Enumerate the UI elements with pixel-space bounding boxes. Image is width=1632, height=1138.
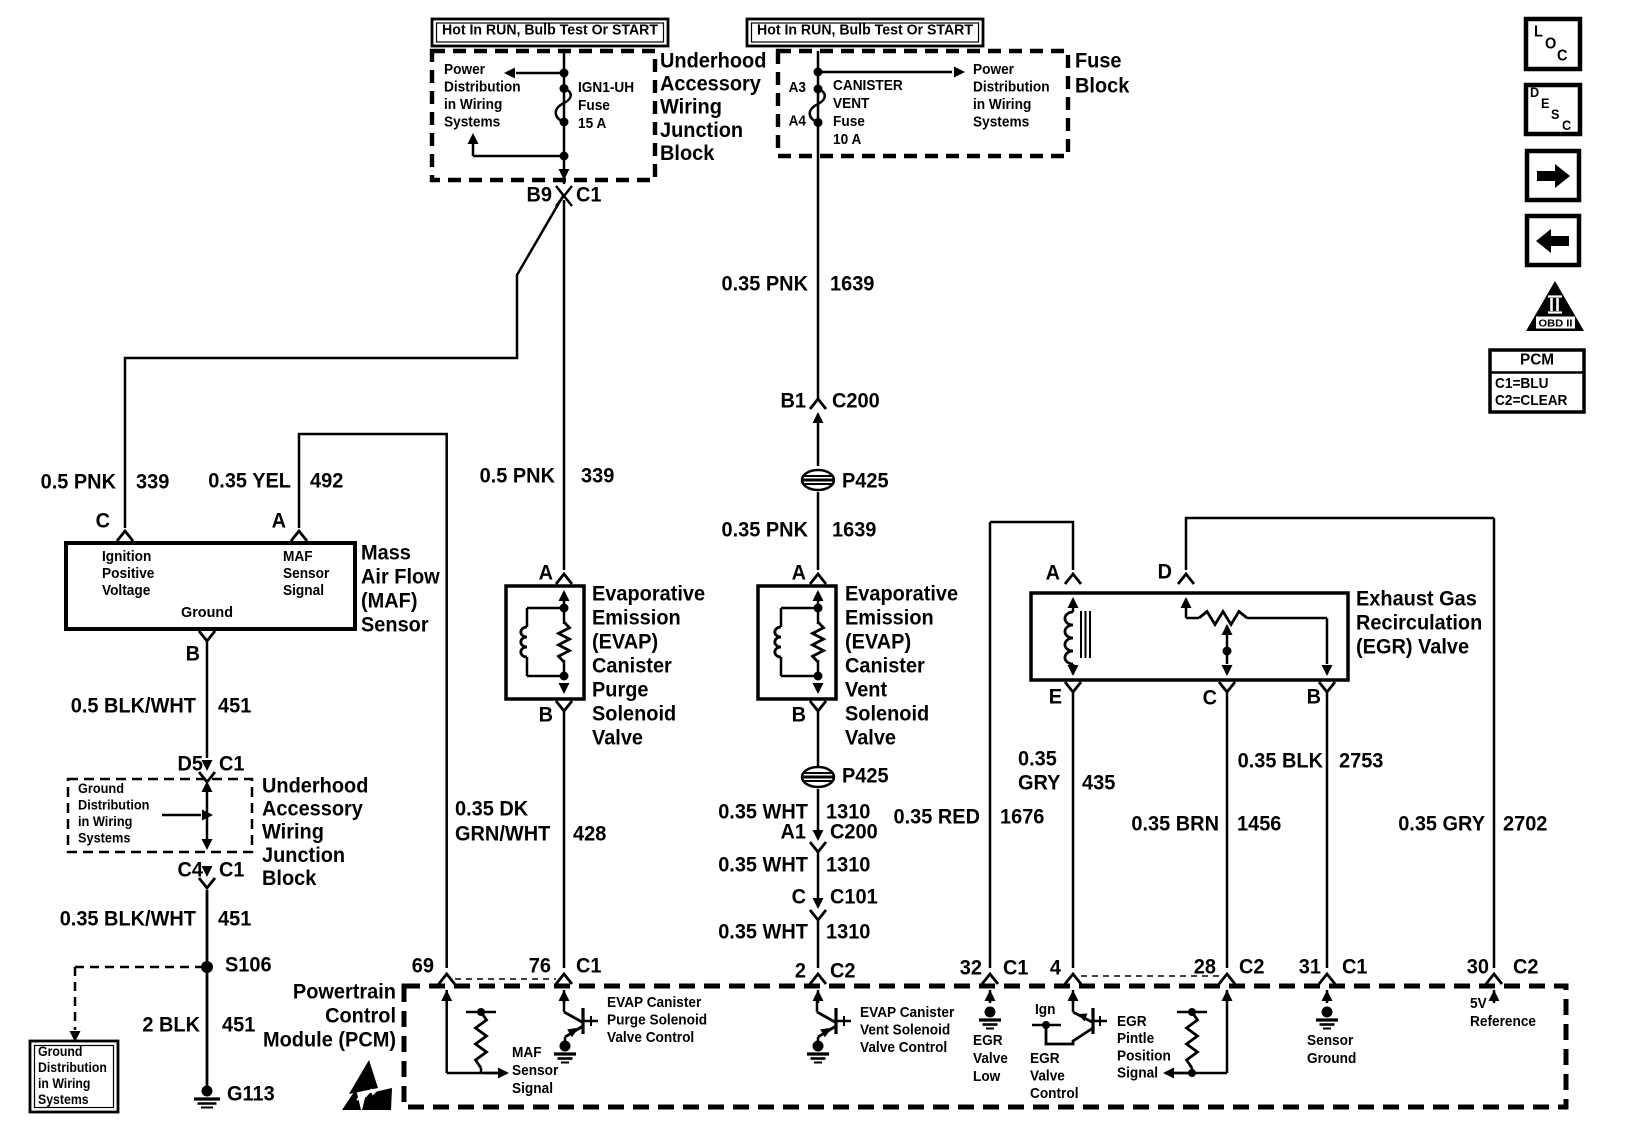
PCM internal: EGR valve control driver transistor with Ign, pin 4 xyxy=(1072,1000,1075,1012)
connector B1 C200 xyxy=(810,399,826,409)
svg-text:0.5 PNK: 0.5 PNK xyxy=(480,464,555,487)
svg-text:428: 428 xyxy=(573,822,607,845)
svg-text:A: A xyxy=(1046,561,1060,584)
arrow PCM pin 2 entry xyxy=(813,990,824,1001)
svg-text:in Wiring: in Wiring xyxy=(38,1076,90,1091)
pull-up resistor at pin 69 xyxy=(466,1011,496,1014)
svg-text:Systems: Systems xyxy=(38,1092,89,1107)
svg-text:4: 4 xyxy=(1050,956,1061,979)
connector PCM pin 31 xyxy=(1319,974,1335,984)
connector EGR pin C xyxy=(1219,682,1235,692)
svg-text:Junction: Junction xyxy=(262,844,345,867)
connector EGR pin B xyxy=(1319,682,1335,692)
fuse CANISTER VENT 10A symbol xyxy=(814,85,823,94)
svg-text:Ground: Ground xyxy=(38,1044,82,1059)
svg-text:in Wiring: in Wiring xyxy=(973,96,1031,113)
Ground Distribution dashed box (underhood junction block) xyxy=(68,779,252,852)
svg-text:Powertrain: Powertrain xyxy=(293,980,396,1003)
PCM internal: sensor ground, pin 31 xyxy=(1322,1007,1333,1018)
svg-text:Distribution: Distribution xyxy=(78,797,149,813)
svg-text:0.35 GRY: 0.35 GRY xyxy=(1398,812,1485,835)
wire WHT 1310 from vent solenoid to P425 xyxy=(817,712,820,766)
Mass Air Flow MAF sensor box xyxy=(66,543,355,629)
solenoid EVAP canister vent valve box xyxy=(758,586,836,699)
arrow PCM pin 30 entry xyxy=(1489,990,1500,1001)
svg-text:(EVAP): (EVAP) xyxy=(845,630,911,653)
svg-text:E: E xyxy=(1541,95,1550,111)
svg-text:Block: Block xyxy=(1075,74,1130,97)
wire WHT 1310 below P425 xyxy=(817,789,820,830)
svg-text:C: C xyxy=(792,885,806,908)
svg-text:GRY: GRY xyxy=(1018,771,1061,794)
svg-text:Underhood: Underhood xyxy=(660,49,766,72)
icon button DESC xyxy=(1526,85,1580,134)
svg-text:Emission: Emission xyxy=(845,606,934,629)
svg-text:Solenoid: Solenoid xyxy=(845,702,929,725)
connector PCM pin 32 xyxy=(982,974,998,984)
svg-text:0.35 RED: 0.35 RED xyxy=(894,805,981,828)
svg-text:EGR: EGR xyxy=(1030,1050,1060,1067)
svg-text:Ignition: Ignition xyxy=(102,548,151,565)
svg-text:Control: Control xyxy=(1030,1085,1079,1102)
svg-text:Valve: Valve xyxy=(592,726,643,749)
svg-text:30: 30 xyxy=(1467,955,1489,978)
svg-text:Emission: Emission xyxy=(592,606,681,629)
svg-text:Evaporative: Evaporative xyxy=(845,582,958,605)
wire 1456 BRN EGR pin C to PCM pin 28 xyxy=(1226,693,1229,968)
svg-text:EGR: EGR xyxy=(973,1032,1003,1049)
svg-text:1310: 1310 xyxy=(826,920,870,943)
svg-text:Signal: Signal xyxy=(512,1080,553,1097)
svg-text:Pintle: Pintle xyxy=(1117,1030,1154,1047)
svg-text:in Wiring: in Wiring xyxy=(78,813,132,829)
svg-text:2: 2 xyxy=(795,959,806,982)
wire 2702 GRY riser to EGR pin D xyxy=(1186,518,1494,570)
wire 339 PNK from B9 to purge solenoid pin A xyxy=(563,200,566,570)
svg-text:0.35: 0.35 xyxy=(1018,747,1057,770)
connector MAF pin A xyxy=(291,531,307,541)
svg-text:Fuse: Fuse xyxy=(578,97,610,114)
svg-text:P425: P425 xyxy=(842,764,889,787)
svg-text:B: B xyxy=(539,703,553,726)
svg-text:Vent: Vent xyxy=(845,678,887,701)
splice S106 xyxy=(201,961,213,973)
wire 428 DK GRN/WHT purge solenoid to PCM pin 76 xyxy=(563,712,566,968)
svg-text:Positive: Positive xyxy=(102,565,154,582)
svg-text:C200: C200 xyxy=(832,389,880,412)
header warning box left: Hot In RUN, Bulb Test Or START xyxy=(432,19,668,46)
svg-text:69: 69 xyxy=(412,954,434,977)
svg-text:Wiring: Wiring xyxy=(660,96,722,119)
arrow PCM pin 4 entry xyxy=(1068,990,1079,1001)
svg-text:0.35 PNK: 0.35 PNK xyxy=(722,272,809,295)
icon OBD II triangle xyxy=(1526,281,1584,331)
svg-text:Voltage: Voltage xyxy=(102,582,150,599)
connector PCM pin 76 xyxy=(556,974,572,984)
svg-text:0.35 PNK: 0.35 PNK xyxy=(722,518,809,541)
svg-text:1639: 1639 xyxy=(832,518,876,541)
icon button LOC xyxy=(1526,19,1580,69)
svg-text:Ground: Ground xyxy=(181,604,233,621)
svg-text:EVAP Canister: EVAP Canister xyxy=(860,1004,954,1021)
svg-text:Purge Solenoid: Purge Solenoid xyxy=(607,1011,707,1028)
connector PCM pin 4 xyxy=(1065,974,1081,984)
svg-text:C2: C2 xyxy=(1239,955,1265,978)
purge solenoid internal wire and arrows xyxy=(559,590,570,601)
svg-text:B: B xyxy=(1307,685,1321,708)
svg-text:Solenoid: Solenoid xyxy=(592,702,676,725)
connector PCM pin 2 xyxy=(810,974,826,984)
svg-text:E: E xyxy=(1049,685,1062,708)
svg-text:Module (PCM): Module (PCM) xyxy=(263,1028,396,1051)
svg-text:Recirculation: Recirculation xyxy=(1356,611,1482,634)
svg-text:339: 339 xyxy=(581,464,614,487)
svg-text:C1=BLU: C1=BLU xyxy=(1495,375,1549,392)
svg-text:A: A xyxy=(539,561,553,584)
node junction to ground branch xyxy=(560,152,569,161)
svg-text:L: L xyxy=(1534,24,1543,41)
connector EGR pin E xyxy=(1065,682,1081,692)
svg-text:0.35 BLK/WHT: 0.35 BLK/WHT xyxy=(60,907,196,930)
Powertrain Control Module PCM dashed box xyxy=(404,986,1566,1107)
connector PCM pin 28 xyxy=(1219,974,1235,984)
svg-text:492: 492 xyxy=(310,469,343,492)
svg-text:0.35 BLK: 0.35 BLK xyxy=(1238,749,1323,772)
svg-text:Sensor: Sensor xyxy=(361,613,429,636)
svg-text:Valve: Valve xyxy=(973,1050,1008,1067)
fuse IGN1-UH 15A symbol xyxy=(560,84,569,93)
svg-text:10 A: 10 A xyxy=(833,131,861,148)
purge solenoid resistor xyxy=(559,622,570,662)
svg-text:(EVAP): (EVAP) xyxy=(592,630,658,653)
svg-text:C: C xyxy=(1562,117,1571,133)
svg-text:Systems: Systems xyxy=(444,113,500,130)
svg-text:D: D xyxy=(1530,84,1539,100)
wire 2702 GRY down to PCM pin 30 xyxy=(1493,518,1496,968)
svg-text:Wiring: Wiring xyxy=(262,821,324,844)
svg-text:PCM: PCM xyxy=(1520,352,1554,369)
PCM connector color legend box xyxy=(1490,350,1584,412)
svg-text:Block: Block xyxy=(262,867,317,890)
wire 1639 PNK between P425 and EVAP vent solenoid xyxy=(817,492,820,570)
dashed connector line pins 4-28 xyxy=(1081,975,1220,977)
svg-text:Power: Power xyxy=(444,61,485,78)
solenoid EVAP canister purge valve box xyxy=(506,586,584,699)
svg-text:Junction: Junction xyxy=(660,119,743,142)
svg-text:Ign: Ign xyxy=(1035,1001,1056,1018)
svg-text:Valve Control: Valve Control xyxy=(860,1039,947,1056)
PCM internal: MAF sensor signal input, pin 69 xyxy=(445,1000,448,1073)
svg-text:C1: C1 xyxy=(576,183,602,206)
EGR potentiometer wiper xyxy=(1222,624,1233,635)
wire WHT 1310 second segment xyxy=(817,852,820,898)
arrow wire exits junction block down xyxy=(559,169,570,180)
EGR solenoid coil with core xyxy=(1068,597,1079,608)
arrow PCM pin 31 entry xyxy=(1322,990,1333,1001)
arrow into ground distribution box xyxy=(70,1031,81,1042)
svg-text:Reference: Reference xyxy=(1470,1013,1536,1030)
svg-text:Position: Position xyxy=(1117,1047,1171,1064)
connector A1 C200 xyxy=(813,830,824,841)
svg-text:C1: C1 xyxy=(1003,956,1029,979)
svg-text:C2: C2 xyxy=(830,959,856,982)
connector pin B purge solenoid xyxy=(556,701,572,711)
arrow to Power Distribution left xyxy=(504,68,515,79)
svg-text:451: 451 xyxy=(222,1013,256,1036)
header warning box right: Hot In RUN, Bulb Test Or START xyxy=(747,19,983,46)
ESD sensitivity triangle symbol xyxy=(349,1060,378,1094)
EGR pintle position potentiometer xyxy=(1181,597,1192,608)
svg-text:31: 31 xyxy=(1299,955,1322,978)
wire canister vent fuse feed vertical xyxy=(817,51,820,400)
arrow ground distribution to wire xyxy=(162,814,201,817)
svg-text:Sensor: Sensor xyxy=(1307,1032,1353,1049)
connector B9 C1 xyxy=(556,186,572,196)
svg-text:28: 28 xyxy=(1194,955,1217,978)
wire 435 GRY EGR pin E to PCM pin 4 xyxy=(1072,693,1075,968)
connector MAF pin B xyxy=(199,631,215,641)
Underhood Accessory Wiring Junction Block dashed box xyxy=(432,51,655,180)
svg-text:A1: A1 xyxy=(781,820,807,843)
arrow to Power Distribution right xyxy=(954,67,965,78)
PCM internal: EVAP canister vent solenoid driver transistor, pin 2 xyxy=(816,1000,819,1012)
svg-text:IGN1-UH: IGN1-UH xyxy=(578,79,634,96)
icon button back arrow xyxy=(1527,216,1579,265)
svg-text:B9: B9 xyxy=(527,183,553,206)
svg-text:0.35 WHT: 0.35 WHT xyxy=(718,920,808,943)
svg-text:C: C xyxy=(1557,48,1568,65)
svg-text:A4: A4 xyxy=(789,112,807,129)
svg-text:435: 435 xyxy=(1082,771,1116,794)
svg-text:Valve: Valve xyxy=(1030,1067,1065,1084)
wire 451 BLK/WHT C4 to S106 xyxy=(206,890,209,967)
connector pin B vent solenoid xyxy=(810,701,826,711)
Fuse Block dashed box xyxy=(778,51,1068,156)
wire ignition feed vertical in junction block xyxy=(563,51,566,184)
icon button forward arrow xyxy=(1527,151,1579,200)
connector C C101 xyxy=(813,898,824,909)
svg-text:Distribution: Distribution xyxy=(444,78,521,95)
connector D5 C1 xyxy=(202,760,213,771)
connector PCM pin 69 xyxy=(439,974,455,984)
svg-text:Purge: Purge xyxy=(592,678,649,701)
svg-text:1676: 1676 xyxy=(1000,805,1044,828)
wire 1639 PNK between C200 and P425 xyxy=(817,422,820,466)
svg-text:C1: C1 xyxy=(219,858,245,881)
splice P425 upper xyxy=(802,470,834,490)
purge solenoid bottom arrow xyxy=(559,683,570,694)
svg-text:Ground: Ground xyxy=(1307,1050,1356,1067)
svg-text:GRN/WHT: GRN/WHT xyxy=(455,822,550,845)
wire 451 2 BLK S106 to G113 xyxy=(206,967,209,1088)
svg-text:2702: 2702 xyxy=(1503,812,1547,835)
connector EGR pin A xyxy=(1065,574,1081,584)
svg-text:0.35 YEL: 0.35 YEL xyxy=(208,469,291,492)
svg-text:339: 339 xyxy=(136,470,169,493)
svg-text:Hot In RUN, Bulb Test Or START: Hot In RUN, Bulb Test Or START xyxy=(442,23,658,39)
connector C4 C1 xyxy=(202,866,213,877)
svg-text:C1: C1 xyxy=(576,954,602,977)
svg-text:in Wiring: in Wiring xyxy=(444,96,502,113)
connector pin A purge solenoid xyxy=(556,574,572,584)
PCM internal: EGR pintle position signal input, pin 28 xyxy=(1226,1000,1229,1073)
svg-text:0.5 BLK/WHT: 0.5 BLK/WHT xyxy=(71,694,196,717)
svg-text:1310: 1310 xyxy=(826,853,870,876)
vent solenoid resistor xyxy=(813,622,824,662)
wire 492 YEL MAF pin A to PCM pin 69 riser xyxy=(299,434,447,968)
svg-text:15 A: 15 A xyxy=(578,115,606,132)
svg-text:76: 76 xyxy=(529,954,551,977)
arrow up branch in junction block xyxy=(472,140,475,156)
ground G113 xyxy=(202,1086,213,1097)
svg-text:Distribution: Distribution xyxy=(38,1060,107,1075)
svg-text:2 BLK: 2 BLK xyxy=(142,1013,200,1036)
svg-text:Accessory: Accessory xyxy=(262,798,363,821)
svg-text:MAF: MAF xyxy=(283,548,313,565)
svg-text:C2=CLEAR: C2=CLEAR xyxy=(1495,392,1568,409)
svg-text:A: A xyxy=(272,509,286,532)
svg-text:0.5 PNK: 0.5 PNK xyxy=(41,470,116,493)
svg-text:Block: Block xyxy=(660,142,715,165)
svg-text:Control: Control xyxy=(325,1004,396,1027)
svg-text:C200: C200 xyxy=(830,820,878,843)
arrow PCM pin 76 entry xyxy=(559,990,570,1001)
wire WHT 1310 third segment to PCM pin 2 xyxy=(817,920,820,968)
svg-text:VENT: VENT xyxy=(833,95,869,112)
svg-text:Signal: Signal xyxy=(283,582,324,599)
svg-text:Vent Solenoid: Vent Solenoid xyxy=(860,1021,950,1038)
connector MAF pin C xyxy=(117,531,133,541)
svg-text:MAF: MAF xyxy=(512,1044,542,1061)
PCM internal: EVAP canister purge solenoid driver transistor, pin 76 xyxy=(563,1000,566,1012)
pull-up resistor at pin 28 xyxy=(1177,1011,1207,1014)
svg-text:EGR: EGR xyxy=(1117,1013,1147,1030)
svg-text:EVAP Canister: EVAP Canister xyxy=(607,994,701,1011)
svg-text:A: A xyxy=(792,561,806,584)
svg-text:C: C xyxy=(96,509,110,532)
vent solenoid coil xyxy=(781,607,818,610)
node to power distribution right xyxy=(814,68,823,77)
svg-text:Power: Power xyxy=(973,61,1014,78)
svg-text:D: D xyxy=(1158,560,1172,583)
wire 451 BLK/WHT MAF pin B to D5 xyxy=(206,642,209,758)
svg-text:(MAF): (MAF) xyxy=(361,589,418,612)
wire 1676 RED down to PCM pin 32 xyxy=(989,522,992,968)
vent solenoid bottom arrow xyxy=(813,683,824,694)
svg-text:S106: S106 xyxy=(225,953,272,976)
svg-text:1639: 1639 xyxy=(830,272,874,295)
wire 2753 BLK EGR pin B to PCM pin 31 xyxy=(1326,693,1329,968)
svg-text:Sensor: Sensor xyxy=(512,1062,558,1079)
svg-text:C: C xyxy=(1203,686,1217,709)
svg-text:Systems: Systems xyxy=(973,113,1029,130)
svg-text:G113: G113 xyxy=(227,1082,275,1105)
svg-text:Ground: Ground xyxy=(78,780,124,796)
svg-text:Underhood: Underhood xyxy=(262,774,368,797)
svg-text:451: 451 xyxy=(218,694,252,717)
svg-text:B: B xyxy=(186,642,200,665)
svg-text:Air Flow: Air Flow xyxy=(361,565,440,588)
svg-text:2753: 2753 xyxy=(1339,749,1383,772)
dashed wire from S106 to ground distribution xyxy=(75,966,201,969)
dashed connector line pins 69-76 xyxy=(455,978,556,980)
svg-text:Hot In RUN, Bulb Test Or START: Hot In RUN, Bulb Test Or START xyxy=(757,23,973,39)
svg-text:C101: C101 xyxy=(830,885,878,908)
svg-text:A3: A3 xyxy=(789,79,806,96)
svg-text:Low: Low xyxy=(973,1068,1001,1085)
splice P425 lower xyxy=(802,767,834,787)
svg-text:CANISTER: CANISTER xyxy=(833,77,903,94)
svg-text:B1: B1 xyxy=(781,389,807,412)
svg-text:Valve: Valve xyxy=(845,726,896,749)
svg-text:C1: C1 xyxy=(219,752,245,775)
svg-text:Accessory: Accessory xyxy=(660,73,761,96)
svg-text:Evaporative: Evaporative xyxy=(592,582,705,605)
svg-text:5V: 5V xyxy=(1470,995,1487,1012)
svg-text:Signal: Signal xyxy=(1117,1065,1158,1082)
wire 1676 RED riser to EGR pin A xyxy=(990,522,1073,570)
connector EGR pin D xyxy=(1178,574,1194,584)
svg-text:P425: P425 xyxy=(842,469,889,492)
PCM internal: EGR valve low ground, pin 32 xyxy=(985,1007,996,1018)
svg-text:C1: C1 xyxy=(1342,955,1368,978)
arrow PCM pin 69 entry xyxy=(441,990,452,1001)
svg-text:Distribution: Distribution xyxy=(973,78,1050,95)
svg-text:Systems: Systems xyxy=(78,830,131,846)
svg-text:0.35 WHT: 0.35 WHT xyxy=(718,853,808,876)
svg-text:Sensor: Sensor xyxy=(283,565,329,582)
svg-text:O: O xyxy=(1545,36,1556,53)
svg-text:C2: C2 xyxy=(1513,955,1539,978)
connector pin A vent solenoid xyxy=(810,574,826,584)
svg-text:(EGR) Valve: (EGR) Valve xyxy=(1356,635,1469,658)
svg-text:0.35 DK: 0.35 DK xyxy=(455,797,528,820)
svg-text:Valve Control: Valve Control xyxy=(607,1029,694,1046)
vent solenoid internal wire and arrows xyxy=(813,590,824,601)
arrow PCM pin 28 entry xyxy=(1222,990,1233,1001)
svg-text:Mass: Mass xyxy=(361,541,411,564)
EGR valve box xyxy=(1031,593,1348,680)
svg-text:0.35 BRN: 0.35 BRN xyxy=(1131,812,1219,835)
node junction to power distribution xyxy=(560,69,569,78)
svg-text:Exhaust Gas: Exhaust Gas xyxy=(1356,587,1477,610)
svg-text:Canister: Canister xyxy=(845,654,925,677)
svg-text:Fuse: Fuse xyxy=(1075,49,1122,72)
svg-text:Canister: Canister xyxy=(592,654,672,677)
svg-text:451: 451 xyxy=(218,907,252,930)
wire 339 PNK branch from B9 to MAF pin C xyxy=(125,196,563,528)
svg-text:B: B xyxy=(792,703,806,726)
Ground Distribution in Wiring Systems solid box xyxy=(30,1041,118,1112)
svg-text:32: 32 xyxy=(960,956,982,979)
purge solenoid coil xyxy=(527,607,564,610)
connector PCM pin 30 xyxy=(1486,974,1502,984)
arrow PCM pin 32 entry xyxy=(985,990,996,1001)
svg-text:OBD II: OBD II xyxy=(1539,318,1573,330)
svg-text:S: S xyxy=(1551,106,1560,122)
svg-text:Fuse: Fuse xyxy=(833,113,865,130)
EGR coil bottom arrow xyxy=(1068,665,1079,676)
svg-text:1456: 1456 xyxy=(1237,812,1281,835)
wire 451 through ground distribution box xyxy=(206,786,209,847)
